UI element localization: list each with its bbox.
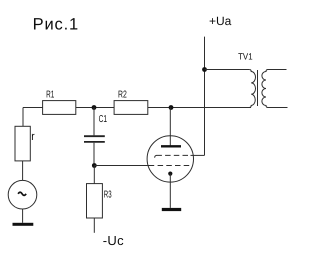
resistor r [15,126,35,161]
tube V1 envelope [147,136,193,182]
wire secondary bottom [268,107,288,109]
svg-text:Рис.1: Рис.1 [33,16,79,34]
svg-text:r: r [31,131,35,143]
svg-text:R1: R1 [46,89,54,100]
tube anode plate [161,145,181,147]
wire grid node to tube [94,165,154,167]
tube cathode dot [168,172,172,176]
wire screen grid to +Ua line [191,154,205,156]
node junction +Ua / primary [202,67,207,72]
svg-text:C1: C1 [99,114,108,125]
node junction anode [169,105,174,110]
resistor R3 [87,184,112,218]
wire +Ua vertical line [204,37,206,156]
svg-text:+Ua: +Ua [209,14,232,28]
wire source to ground [22,209,24,223]
transformer TV1 secondary winding [262,70,268,108]
wire anode lead [169,108,171,146]
wire C1 to grid node [93,143,95,166]
AC source G1 [8,180,37,209]
resistor R2 [114,89,148,114]
ground (cathode) [162,208,181,211]
wire grid node down to R3 [93,166,95,184]
resistor R1 [43,89,76,114]
svg-text:R3: R3 [104,190,112,201]
wire main rail y=107.5 from left corner to transformer [23,107,251,109]
transformer core [257,70,259,106]
wire left drop to r [22,108,24,127]
svg-text:R2: R2 [118,89,127,100]
tube control grid (dashed) [158,165,192,167]
node junction at C1 top [92,105,97,110]
svg-text:-Uc: -Uc [103,233,124,248]
wire +Ua to transformer primary top [205,69,250,71]
wire rail to C1 [93,108,95,136]
svg-text:TV1: TV1 [238,51,253,61]
node junction grid/R3 [92,163,97,168]
wire cathode to ground [169,174,171,208]
wire secondary top [268,69,287,71]
wire R3 to -Uc terminal [93,218,95,233]
ground (left) [13,223,34,226]
tube screen grid (dashed) [156,154,189,156]
transformer TV1 primary winding [249,70,255,108]
capacitor C1 [84,136,105,142]
wire r to source [22,161,24,181]
